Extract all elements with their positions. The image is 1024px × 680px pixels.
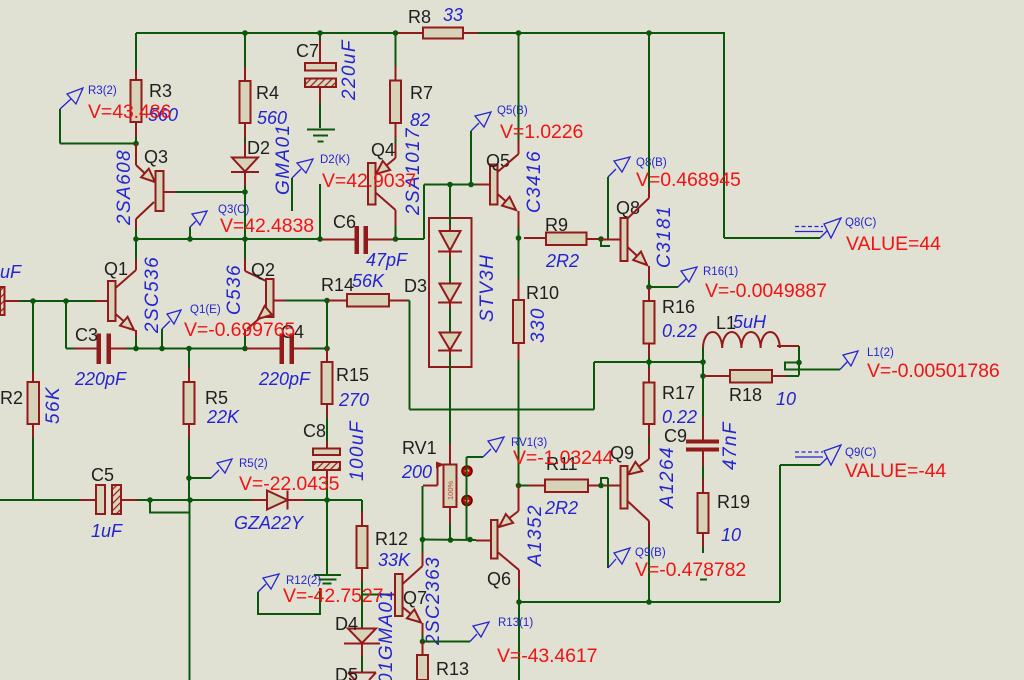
svg-text:VALUE=44: VALUE=44 [846, 233, 941, 255]
wire R3 bottom [135, 122, 137, 137]
resistor R15 [326, 349, 328, 363]
wire Q8 base hook [601, 239, 610, 246]
node Q2base-R14 [324, 298, 330, 304]
probe RV1(3) stub [466, 457, 468, 540]
resistor R12 [357, 526, 368, 568]
wire output loop [785, 363, 799, 370]
node Q7C-RV1W [420, 537, 426, 543]
node row239 [133, 236, 139, 242]
wire C7 top [319, 33, 321, 40]
resistor R13 [422, 642, 424, 656]
probe Q1(E) [161, 329, 163, 349]
wire rail right drop [723, 32, 725, 238]
probe R3(2) [60, 98, 72, 109]
wire C6-Q5 riser [396, 238, 425, 240]
diode D3c [440, 333, 461, 351]
wire Q9C tap [780, 464, 820, 466]
diode D3a [440, 231, 461, 251]
svg-text:10: 10 [721, 525, 741, 545]
svg-text:L1(2): L1(2) [867, 347, 894, 359]
node output [646, 359, 652, 365]
svg-text:V=-42.7527: V=-42.7527 [283, 585, 383, 607]
transistor Q3 emitter [135, 144, 137, 166]
transistor Q7 emitter [403, 607, 422, 623]
wire top rail +44V [136, 32, 397, 34]
diode D2 [232, 158, 258, 172]
transistor Q2 emitter [247, 313, 266, 329]
resistor R16 [648, 287, 650, 301]
svg-text:2SC2363: 2SC2363 [423, 556, 444, 646]
transistor Q2 base [274, 300, 286, 302]
svg-text:0.22: 0.22 [662, 321, 697, 341]
svg-text:33: 33 [443, 5, 463, 25]
svg-text:R18: R18 [729, 385, 762, 405]
wire emitter row [136, 348, 246, 350]
svg-text:Q1(E): Q1(E) [190, 304, 221, 316]
probe Q8(C) [820, 230, 828, 238]
probe L1(2) [840, 361, 848, 370]
transistor Q9 body [621, 466, 628, 509]
svg-text:D2: D2 [247, 138, 270, 158]
svg-text:C536: C536 [224, 264, 245, 315]
wire C3 right [111, 348, 126, 350]
transistor Q7 collector [403, 566, 423, 584]
svg-text:R8: R8 [408, 7, 431, 27]
wire R4-D2 [244, 123, 246, 138]
probe R12(2) [258, 588, 320, 614]
svg-text:V=42.9037: V=42.9037 [322, 170, 416, 192]
svg-text:A1264: A1264 [657, 446, 678, 509]
node C8-R12 [324, 497, 330, 503]
resistor R2 [32, 301, 34, 372]
svg-text:56K: 56K [352, 271, 385, 291]
svg-text:R13(1): R13(1) [498, 617, 533, 629]
wire C5 right [121, 499, 137, 501]
svg-text:R16: R16 [662, 297, 695, 317]
probe Q5(B) [470, 131, 472, 185]
diode D1 GZA22Y [251, 499, 267, 501]
transistor Q5 emitter [498, 194, 517, 210]
svg-text:GMA01: GMA01 [273, 124, 294, 195]
wire R11 left [519, 485, 530, 487]
resistor R10 [518, 238, 520, 279]
wire output row [593, 362, 595, 410]
resistor R3 [131, 80, 142, 122]
svg-text:2R2: 2R2 [545, 251, 579, 271]
svg-text:V=43.486: V=43.486 [88, 101, 171, 123]
svg-text:R5(2): R5(2) [239, 458, 268, 470]
svg-text:10: 10 [776, 389, 796, 409]
wire output to probe [799, 369, 840, 371]
svg-text:100%: 100% [446, 480, 455, 500]
svg-text:D5: D5 [335, 665, 358, 680]
node tap stub [467, 537, 473, 543]
node R10-Q6-R11 [516, 483, 522, 489]
transistor Q9 emitter [648, 424, 650, 439]
svg-text:R13: R13 [436, 659, 469, 679]
svg-text:200: 200 [401, 462, 432, 482]
wire RV1 bottom [449, 507, 451, 524]
svg-text:R10: R10 [526, 283, 559, 303]
transistor Q9 collector [628, 501, 650, 521]
transistor Q1 emitter [116, 314, 135, 330]
node R9-Q8 [598, 236, 604, 242]
capacitor C9 [702, 376, 704, 417]
wire R12 branch [327, 499, 362, 501]
wire C3 left [65, 301, 67, 349]
potentiometer RV1 body [444, 465, 457, 508]
svg-text:R9: R9 [545, 215, 568, 235]
node R3-Q3 [133, 141, 139, 147]
transistor Q1 base lead [95, 300, 108, 302]
node Q1 base row [30, 298, 36, 304]
svg-text:D3: D3 [404, 276, 427, 296]
potentiometer RV1 wiper [436, 462, 445, 469]
probe D2(K) [291, 178, 293, 211]
wire R19 bottom stub [702, 533, 704, 547]
transistor Q5 base [477, 184, 490, 186]
transistor Q1 body [108, 281, 116, 321]
svg-text:C8: C8 [303, 421, 326, 441]
node Q7E-R13 [420, 639, 426, 645]
wire bias row [423, 539, 477, 542]
resistor R19 [702, 452, 704, 467]
potentiometer RV1 tap top [462, 466, 472, 476]
probe Q9(B) stub [607, 478, 609, 568]
probe R13(1) [470, 634, 477, 642]
svg-text:Q8(C): Q8(C) [845, 217, 876, 229]
svg-text:RV1: RV1 [402, 438, 437, 458]
resistor R14 [328, 300, 347, 302]
node Q5E-R9-R10 [516, 235, 522, 241]
node C4 right [324, 346, 330, 352]
potentiometer RV1 tap bottom [462, 496, 472, 506]
resistor R18 [704, 375, 730, 377]
svg-text:R15: R15 [336, 365, 369, 385]
svg-text:V=-0.00501786: V=-0.00501786 [867, 360, 1000, 382]
probe R3(2) wire [60, 143, 136, 145]
svg-text:R5: R5 [205, 388, 228, 408]
transistor Q5 collector [498, 154, 519, 172]
svg-text:Q3: Q3 [144, 147, 168, 167]
wire Q8C tap [724, 237, 820, 239]
svg-text:220pF: 220pF [258, 369, 311, 389]
svg-text:R17: R17 [662, 383, 695, 403]
wire R4 top [244, 33, 246, 67]
wire R5 bottom [188, 438, 190, 500]
node rail junctions [242, 30, 248, 36]
svg-text:Q1: Q1 [104, 259, 128, 279]
svg-text:D4: D4 [335, 614, 358, 634]
svg-text:R2: R2 [0, 388, 23, 408]
wire stub x320 [319, 184, 321, 239]
svg-text:V=1.0226: V=1.0226 [500, 121, 583, 143]
svg-text:R7: R7 [410, 83, 433, 103]
svg-text:100uF: 100uF [347, 420, 368, 481]
wire R13 probe row [423, 641, 471, 643]
svg-text:R4: R4 [256, 83, 279, 103]
transistor Q6 emitter [518, 486, 520, 512]
probe Q9(C) [820, 457, 828, 465]
probe RV1(3) [483, 449, 491, 457]
svg-text:Q8(B): Q8(B) [636, 157, 667, 169]
capacitor C3 [97, 334, 102, 365]
capacitor C7 [305, 63, 336, 71]
node R5 probe [186, 475, 192, 481]
wire R8 leads [397, 32, 423, 34]
node D2-Q3 base [242, 189, 248, 195]
svg-text:220pF: 220pF [74, 369, 127, 389]
svg-text:V=-1.03244: V=-1.03244 [513, 447, 614, 469]
probe Q8(B) [608, 169, 616, 177]
transistor Q6 body [491, 520, 498, 559]
svg-text:C3416: C3416 [524, 150, 545, 213]
device D3 STV3H box [429, 218, 472, 367]
wire C7 gnd [319, 87, 321, 103]
transistor Q3 base [164, 191, 177, 193]
transistor Q1 collector [116, 270, 137, 288]
probe Q3(C) [189, 227, 191, 239]
svg-text:GZA22Y: GZA22Y [234, 513, 305, 533]
node C6 right [393, 236, 399, 242]
svg-text:1uF: 1uF [91, 521, 123, 541]
transistor Q8 emitter [628, 247, 648, 265]
svg-text:V=-22.0435: V=-22.0435 [239, 473, 340, 495]
transistor Q3 collector [136, 202, 154, 219]
svg-text:V=42.4838: V=42.4838 [220, 215, 314, 237]
wire R12 bottom [361, 568, 363, 581]
node Q8E-R16 [646, 284, 652, 290]
svg-text:R19: R19 [717, 492, 750, 512]
wire L1 right [777, 345, 799, 347]
svg-text:2SC536: 2SC536 [142, 256, 163, 334]
svg-text:R16(1): R16(1) [703, 266, 738, 278]
wire feedback row [409, 301, 411, 410]
svg-text:2R2: 2R2 [544, 498, 578, 518]
svg-text:C6: C6 [333, 212, 356, 232]
resistor R8 [423, 28, 463, 39]
transistor Q6 collector [498, 552, 520, 570]
wire row500 [150, 499, 251, 501]
wire R14col [326, 301, 328, 349]
diode D4 [348, 629, 376, 644]
svg-text:V=-0.478782: V=-0.478782 [635, 559, 746, 581]
svg-text:Q4: Q4 [371, 140, 395, 160]
capacitor C6 [322, 239, 355, 241]
svg-text:D2(K): D2(K) [320, 154, 350, 166]
svg-text:V=-0.0049887: V=-0.0049887 [705, 280, 827, 302]
node Q5 base row [447, 182, 453, 188]
diode D5 [348, 672, 376, 674]
svg-text:Q6: Q6 [487, 569, 511, 589]
svg-text:R12: R12 [375, 529, 408, 549]
wire R7 top [395, 33, 397, 66]
node RV1 bottom [448, 537, 454, 543]
svg-text:C9: C9 [664, 426, 687, 446]
node R18 left [700, 373, 706, 379]
svg-text:Q9(C): Q9(C) [845, 447, 876, 459]
svg-text:2SA608: 2SA608 [114, 149, 135, 226]
wire Q9 base hook [601, 478, 608, 486]
svg-text:Q8: Q8 [616, 198, 640, 218]
wire D4-D5 [361, 644, 363, 658]
capacitor C4 [246, 348, 280, 350]
wire C9 col top [702, 362, 704, 376]
transistor Q8 body [621, 218, 628, 261]
svg-text:Q2: Q2 [251, 260, 275, 280]
svg-text:R3(2): R3(2) [88, 85, 117, 97]
probe R16(1) [649, 286, 678, 288]
transistor Q4 body [368, 163, 376, 205]
wire bottom rail -44V [519, 601, 780, 603]
svg-text:R14: R14 [321, 275, 354, 295]
wire Q3C row [136, 238, 322, 240]
resistor R9 [524, 237, 546, 239]
svg-text:STV3H: STV3H [477, 254, 498, 322]
svg-text:330: 330 [528, 307, 549, 343]
node L1-R18 right [796, 360, 802, 366]
wire RV1 top [449, 444, 451, 465]
transistor Q5 body [490, 165, 498, 205]
transistor Q9 base lead [601, 485, 621, 487]
resistor R4 [240, 81, 251, 123]
wire input row [0, 499, 80, 501]
svg-text:A1352: A1352 [525, 504, 546, 567]
resistor R17 [648, 362, 650, 368]
svg-text:47pF: 47pF [366, 250, 408, 270]
wire C8 bottom [326, 470, 328, 480]
transistor Q6 base lead [476, 540, 491, 542]
node C5 right [147, 497, 153, 503]
wire D2 net down [244, 192, 246, 239]
transistor Q3 body [156, 171, 164, 211]
svg-text:R3: R3 [149, 81, 172, 101]
resistor R5 [188, 349, 190, 368]
capacitor C5 [96, 485, 105, 514]
svg-text:Q9(B): Q9(B) [635, 547, 666, 559]
svg-text:C7: C7 [296, 41, 319, 61]
wire L1 left [702, 348, 704, 362]
svg-text:V=-0.699765: V=-0.699765 [184, 319, 295, 341]
svg-text:uF: uF [0, 262, 22, 282]
svg-text:C5: C5 [91, 465, 114, 485]
svg-text:V=0.468945: V=0.468945 [636, 169, 741, 191]
probe Q9(B) [608, 559, 616, 568]
ground C8 net [314, 574, 341, 576]
svg-text:Q5: Q5 [486, 151, 510, 171]
transistor Q4 collector [376, 193, 396, 211]
svg-text:V=-43.4617: V=-43.4617 [497, 645, 597, 667]
wire Q1 base row [5, 300, 20, 302]
svg-text:0.22: 0.22 [662, 407, 697, 427]
svg-text:56K: 56K [43, 386, 64, 424]
node R11-Q9 [598, 483, 604, 489]
svg-text:VALUE=-44: VALUE=-44 [845, 460, 946, 482]
probe R5(2) [189, 477, 211, 479]
svg-text:82: 82 [410, 110, 430, 130]
svg-text:5uH: 5uH [733, 312, 767, 332]
svg-text:220uF: 220uF [339, 39, 360, 101]
wire C8 gnd stem [326, 500, 328, 574]
transistor Q7 body [395, 574, 403, 616]
transistor Q8 base lead [601, 239, 621, 241]
svg-text:270: 270 [338, 390, 369, 410]
svg-text:22K: 22K [206, 407, 240, 427]
node bottom rail [516, 599, 522, 605]
wire D2 cathode [244, 172, 246, 186]
diode D3b [440, 284, 461, 303]
transistor Q2 collector [244, 239, 246, 259]
capacitor C-input (edge) [0, 287, 5, 315]
wire R3 top [135, 33, 137, 70]
wire R7-Q4 [395, 123, 397, 138]
wire left col down [189, 500, 191, 680]
probe Q8(B) stub [607, 177, 609, 239]
transistor Q8 collector [648, 33, 650, 187]
svg-text:C3181: C3181 [654, 205, 675, 268]
svg-text:C3: C3 [75, 325, 98, 345]
resistor R7 [390, 81, 401, 124]
capacitor C8 [326, 404, 328, 418]
svg-text:33K: 33K [378, 550, 411, 570]
svg-text:47nF: 47nF [720, 421, 741, 470]
svg-text:Q5(B): Q5(B) [497, 105, 528, 117]
ground C7 [307, 129, 335, 131]
inductor L1 [703, 332, 780, 348]
svg-text:Q9: Q9 [610, 443, 634, 463]
wire D3 top pin [449, 185, 451, 226]
transistor Q4 emitter [376, 158, 396, 174]
transistor Q2 body [266, 279, 274, 317]
wire jog 512 [150, 500, 190, 513]
wire Q7 base [362, 594, 387, 596]
node erow [133, 346, 139, 352]
node R5 col [187, 497, 193, 503]
